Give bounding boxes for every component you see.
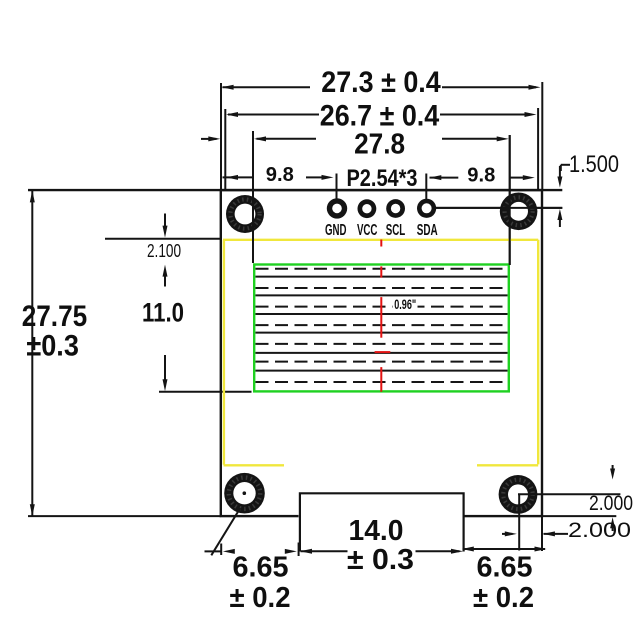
- screen dashed line 7: [256, 324, 508, 326]
- extension line through top-left hole: [252, 195, 254, 263]
- svg-text:2.100: 2.100: [147, 241, 181, 261]
- dimension 2.000 lower line: [502, 533, 513, 535]
- extension line 26.7 left: [224, 109, 226, 190]
- pin SDA stub: [425, 174, 427, 200]
- screen solid line 6: [256, 313, 508, 315]
- screen dashed line 3: [256, 287, 508, 289]
- pin SDA: [417, 199, 436, 218]
- board bottom edge mask for connector: [299, 514, 465, 520]
- svg-text:± 0.2: ± 0.2: [230, 582, 291, 614]
- svg-text:SDA: SDA: [417, 222, 438, 239]
- svg-text:6.65: 6.65: [477, 552, 533, 584]
- yellow silkscreen rectangle: [223, 240, 538, 465]
- svg-text:9.8: 9.8: [266, 164, 294, 186]
- svg-text:9.8: 9.8: [467, 165, 495, 187]
- screen solid line 12: [256, 370, 508, 372]
- dimension 2.100 arrow: [164, 214, 166, 233]
- pin line through top-right hole: [434, 207, 562, 209]
- extension line right lower: [541, 460, 543, 551]
- extension line screen bottom left: [159, 391, 252, 393]
- connector outline: [300, 493, 464, 551]
- dimension 6.65 right line and arrows: [463, 548, 545, 550]
- hole bottom-right center lines: [518, 494, 520, 551]
- extension line 27.8 right: [509, 135, 511, 265]
- extension line yellow top left: [105, 238, 221, 240]
- svg-text:6.65: 6.65: [233, 552, 289, 584]
- green display active area: [254, 265, 509, 392]
- dimension 14.0 extension left: [298, 543, 300, 557]
- dimension 1.500 down arrow: [559, 166, 561, 178]
- pin GND stub: [336, 174, 338, 201]
- dimension 2.000 upper up arrow: [612, 526, 614, 531]
- dimension 14.0 line: [301, 550, 348, 552]
- board bottom edge extension right: [542, 515, 616, 517]
- 0.96 inch label: [393, 297, 418, 310]
- dimension 1.500 bracket: [560, 165, 562, 171]
- screen solid line 4: [256, 294, 508, 296]
- dimension 6.65 left extension: [220, 544, 222, 556]
- screen dashed line 9: [256, 343, 508, 345]
- dimension 26.7 line: [228, 114, 319, 116]
- svg-text:P2.54*3: P2.54*3: [347, 165, 418, 192]
- dimension 2.000 upper arrow: [612, 465, 614, 470]
- board bottom edge extension left: [28, 515, 221, 517]
- dimension 6.65 left line and arrows: [205, 550, 222, 552]
- hole top-left: [226, 195, 264, 233]
- extension line 27.3 left: [220, 83, 222, 190]
- screen dashed line 5: [256, 306, 508, 308]
- svg-text:SCL: SCL: [386, 222, 406, 239]
- pin SCL: [386, 199, 405, 218]
- extension line 26.7 right: [537, 108, 539, 191]
- hole bottom-right: [499, 475, 538, 514]
- pin VCC: [358, 199, 377, 218]
- svg-text:2.000: 2.000: [589, 491, 633, 515]
- pin center line right: [434, 207, 562, 209]
- dimension 27.8 line: [257, 138, 317, 140]
- screen solid line 2: [256, 276, 508, 278]
- dimension 27.75 vertical line: [31, 191, 33, 517]
- svg-text:11.0: 11.0: [142, 298, 184, 328]
- dimension 27.3 line: [223, 86, 311, 88]
- svg-text:VCC: VCC: [357, 222, 378, 239]
- svg-text:± 0.2: ± 0.2: [473, 582, 534, 614]
- dimension 11.0 bottom arrow: [164, 355, 166, 382]
- svg-text:27.3 ± 0.4: 27.3 ± 0.4: [321, 66, 441, 99]
- dimension 6.65 left leader diagonal: [211, 508, 240, 555]
- board top edge extended: [28, 189, 562, 191]
- dimension 27.8 outside arrow left: [201, 138, 217, 140]
- svg-text:2.000: 2.000: [568, 518, 631, 542]
- svg-text:GND: GND: [325, 222, 347, 239]
- red centerline segments: [375, 240, 391, 392]
- screen solid line 10: [256, 352, 508, 354]
- screen dashed line 13: [256, 381, 508, 383]
- svg-text:±0.3: ±0.3: [26, 330, 79, 363]
- extension line 27.8 left: [252, 131, 254, 263]
- dimension 11.0 top arrow: [164, 274, 166, 287]
- svg-text:1.500: 1.500: [569, 151, 619, 178]
- svg-text:0.96": 0.96": [394, 296, 416, 312]
- dimension 9.8 right line: [430, 177, 459, 179]
- screen dashed line 11: [256, 361, 508, 363]
- svg-text:± 0.3: ± 0.3: [347, 544, 414, 576]
- extension line through top-right hole: [509, 135, 511, 265]
- svg-text:27.8: 27.8: [354, 129, 405, 161]
- pin GND: [327, 198, 347, 218]
- dimension 1.500 up arrow: [559, 218, 561, 227]
- board outline: [221, 190, 542, 516]
- dimension 9.8 left line: [223, 176, 254, 178]
- extension line 27.3 right upper: [541, 82, 543, 191]
- hole bottom-left: [224, 473, 265, 514]
- screen dashed line 1: [256, 268, 508, 270]
- hole top-right: [500, 193, 538, 231]
- screen solid line 8: [256, 332, 508, 334]
- svg-text:14.0: 14.0: [349, 515, 404, 547]
- svg-text:27.75: 27.75: [22, 300, 88, 333]
